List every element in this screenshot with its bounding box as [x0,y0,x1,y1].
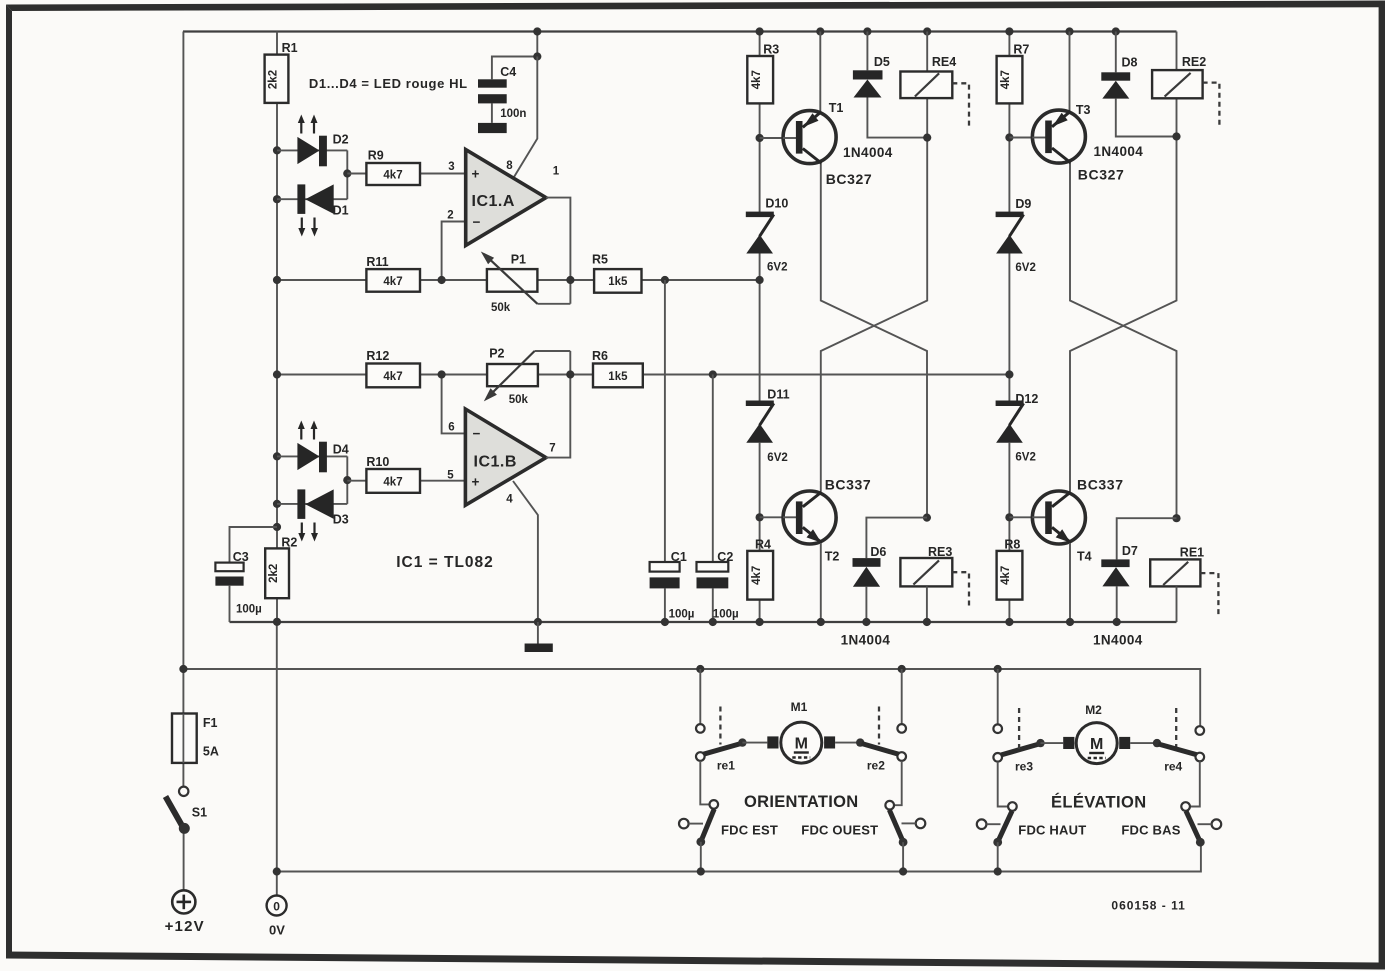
svg-text:6V2: 6V2 [1015,262,1035,274]
node R10 tap [343,476,351,484]
svg-text:D6: D6 [870,545,886,559]
svg-text:FDC BAS: FDC BAS [1121,823,1180,838]
svg-text:1k5: 1k5 [608,371,628,383]
relay contact re2 [897,724,906,733]
node D3 cathode [273,500,281,508]
node re2 motor node [856,738,864,746]
node re2 supply tap [898,665,906,673]
wire P1 wiper link [537,303,570,305]
wire C1 leads [664,280,666,622]
wire comparator B output net (y=374.5) [277,374,1009,376]
svg-text:ORIENTATION: ORIENTATION [744,793,859,811]
wire to op-amp pin 5 [347,480,465,482]
wire RE3 bottom lead [926,586,928,622]
LED D2 [297,137,319,164]
svg-text:BC337: BC337 [1077,477,1124,493]
wire D6 bottom lead [865,587,867,622]
op-amp U1A IC1.A [466,150,546,246]
wire pin 6 branch [442,375,466,434]
svg-text:5A: 5A [203,745,219,759]
capacitor C1 [650,562,680,572]
svg-text:T1: T1 [829,101,844,115]
svg-text:5: 5 [447,470,454,482]
zener D10 [746,212,774,218]
resistor R12 [366,364,420,388]
node D6 ground [862,618,870,626]
svg-text:T3: T3 [1076,103,1091,117]
svg-text:4k7: 4k7 [383,276,402,288]
svg-text:0V: 0V [269,923,285,938]
node D7/RE1 junction [1172,514,1180,522]
resistor R3 [747,56,773,103]
svg-text:2: 2 [447,210,453,222]
svg-text:BC327: BC327 [1078,167,1125,183]
wire RE4 contact link (dashed) [952,83,969,126]
zener D9 [996,212,1024,218]
svg-text:1N4004: 1N4004 [1093,633,1143,648]
svg-text:ÉLÉVATION: ÉLÉVATION [1051,793,1147,812]
node R9 tap [343,169,351,177]
svg-text:060158 - 11: 060158 - 11 [1111,899,1185,913]
svg-text:R7: R7 [1013,43,1029,57]
wire 0V bottom rail of amplifier section [230,621,1177,623]
node C4/pin8 branch [533,27,541,35]
svg-text:C4: C4 [500,65,516,79]
wire D3 row [277,503,347,505]
relay coil RE2 [1152,70,1203,98]
wire FDC HAUT to 0V rail [997,842,999,871]
svg-text:1N4004: 1N4004 [843,145,893,160]
resistor R6 [593,364,643,388]
svg-text:+12V: +12V [165,918,205,935]
node C1 branch [661,276,669,284]
wire re2 to FDC OUEST [894,761,902,805]
wire D1 row [277,198,347,200]
wire relay-contact supply rail [183,669,1200,727]
wire D5 bottom to RE4 junction [867,98,927,138]
node R11 input [273,276,281,284]
wire pin 2 branch [442,222,466,281]
svg-text:100µ: 100µ [236,604,262,616]
svg-text:100µ: 100µ [669,609,695,621]
wire RE3 contact link (dashed) [952,572,969,608]
svg-text:6V2: 6V2 [767,262,787,274]
relay coil RE4 [900,72,952,99]
node D1 cathode [273,195,281,203]
transistor Q2 T2 BC337 [783,491,836,544]
wire motor-return bottom rail [277,846,1201,872]
node FDC HAUT rail joint [994,867,1002,875]
svg-text:FDC OUEST: FDC OUEST [801,823,878,838]
svg-text:M: M [1090,736,1103,753]
svg-text:−: − [473,215,481,230]
node FDC HAUT common [993,838,1002,847]
node T2 base junction [756,513,764,521]
wire T4 collector cross from RE2 side [1070,137,1177,492]
node D8 rail tap [1112,27,1120,35]
wire lower sensor right link [346,456,348,504]
svg-text:D9: D9 [1015,197,1031,211]
zener D11 [746,401,774,407]
node C2 ground [709,618,717,626]
diode D5 1N4004 [853,70,883,79]
wire T2 base [760,516,797,518]
node re4 motor node [1153,739,1161,747]
svg-text:re4: re4 [1164,760,1182,774]
motor M1 [781,722,822,763]
svg-text:re3: re3 [1015,760,1033,774]
wire sensor pair right link [346,150,348,199]
wire FDC EST to 0V rail [700,842,702,872]
node FDC OUEST rail joint [899,867,907,875]
svg-text:D7: D7 [1122,544,1138,558]
switch FDC OUEST [885,801,894,810]
svg-text:R8: R8 [1004,538,1020,552]
svg-text:D10: D10 [765,197,788,211]
node pin2/P1 junction [438,276,446,284]
wire RE4 coil leads [926,32,928,138]
svg-text:6: 6 [448,422,454,434]
node 0V rail branch [273,867,281,875]
svg-text:M2: M2 [1085,703,1102,717]
resistor R8 [997,551,1023,600]
wire re3 feed [997,669,999,725]
svg-text:8: 8 [506,160,513,172]
ground [537,622,539,644]
wire M2 left lead [1041,742,1064,744]
node C1 ground [661,618,669,626]
svg-text:D11: D11 [767,388,789,402]
resistor R10 [366,469,420,493]
wire M1 right lead [835,742,860,744]
wire D6 top link [866,518,927,559]
node supply rail branch [179,665,187,673]
node D5/RE4 junction [923,134,931,142]
capacitor C2 [697,562,729,572]
svg-text:R3: R3 [763,43,779,57]
capacitor C4 bracket [492,32,537,123]
svg-text:D12: D12 [1015,392,1038,406]
svg-text:R2: R2 [281,536,297,550]
resistor R9 [366,163,420,185]
node FDC EST rail joint [697,867,705,875]
svg-text:IC1 = TL082: IC1 = TL082 [396,554,494,571]
node R8 ground [1005,618,1013,626]
node D4 anode [273,452,281,460]
svg-text:R5: R5 [592,253,608,267]
svg-text:D3: D3 [333,513,349,527]
svg-text:RE2: RE2 [1182,55,1206,69]
svg-text:re2: re2 [867,759,885,773]
diode D6 1N4004 [853,558,881,567]
svg-text:6V2: 6V2 [1015,452,1035,464]
wire op-amp pin 8 supply [514,57,537,178]
switch FDC HAUT [1008,802,1017,811]
svg-text:R6: R6 [592,349,608,363]
svg-text:1N4004: 1N4004 [841,633,891,648]
node re1 supply tap [696,665,704,673]
wire D4 row [277,455,347,457]
node D6/RE3 junction [923,514,931,522]
wire sensor chain vertical [276,32,278,622]
node R7 top [1005,27,1013,35]
wire T4 emitter [1069,543,1071,622]
svg-text:P2: P2 [489,347,504,361]
svg-text:RE4: RE4 [932,55,956,69]
wire re1 to FDC EST [700,761,709,805]
svg-text:4k7: 4k7 [751,70,763,89]
wire D8 bottom to RE2 junction [1116,99,1177,137]
wire T2 collector cross from RE4 side [821,138,927,492]
node D7 ground [1113,618,1121,626]
resistor R5 [594,269,641,293]
node FDC BAS common [1196,838,1205,847]
svg-text:4k7: 4k7 [1000,566,1012,585]
node R12 input [273,370,281,378]
node T1 emitter rail tap [816,27,824,35]
diode D7 1N4004 [1101,559,1129,567]
wire D2 row [277,149,347,151]
wire T1 emitter [819,32,821,112]
svg-text:2k2: 2k2 [268,564,280,583]
svg-text:D1...D4 = LED rouge HL: D1...D4 = LED rouge HL [309,76,468,91]
svg-text:D8: D8 [1122,56,1138,70]
terminal 0V [267,896,287,916]
svg-text:R1: R1 [282,41,298,55]
node pin6/P2 junction [438,370,446,378]
zener D12 [996,401,1024,407]
svg-text:4k7: 4k7 [383,476,402,488]
mechanical link re4 (dashed) [1175,708,1177,750]
wire RE2 coil leads [1176,32,1178,137]
wire R3/zener column [759,32,761,623]
wire C3 top bracket [230,527,278,563]
wire M2 right lead [1130,742,1157,744]
wire M1 left lead [742,742,767,744]
node re3 motor node [1036,739,1044,747]
wire T3 base [1009,137,1045,139]
wire RE2 contact link (dashed) [1203,83,1220,126]
wire T3 emitter [1069,32,1071,112]
svg-text:BC327: BC327 [826,171,873,187]
svg-text:D2: D2 [333,133,349,147]
node D8/RE2 junction [1172,132,1180,140]
node T4 emitter ground [1066,618,1074,626]
wire T1 collector cross to RE3 side [821,163,927,517]
relay coil RE3 [900,558,952,586]
svg-text:4k7: 4k7 [1000,70,1012,89]
node output/feedback A [566,276,574,284]
node R3 top [756,27,764,35]
LED D4 [297,443,319,470]
relay coil RE1 [1150,559,1200,586]
node R6/zener junction [1005,370,1013,378]
node pin 4 ground junction [534,618,542,626]
node D2 anode [273,146,281,154]
svg-text:4k7: 4k7 [383,371,402,383]
wire +12V top supply rail [183,30,1177,32]
svg-text:D4: D4 [333,443,349,457]
svg-text:RE3: RE3 [928,545,952,559]
transistor Q3 T3 BC327 [1032,110,1085,163]
wire D7 top link [1117,518,1177,559]
wire D8 top lead [1115,32,1117,73]
svg-text:−: − [473,426,481,441]
svg-text:1k5: 1k5 [608,276,628,288]
svg-text:RE1: RE1 [1180,546,1204,560]
node re1 motor node [738,738,746,746]
wire +12V left vertical (corner to fuse) [182,32,184,787]
transistor Q1 T1 BC327 [783,111,836,164]
svg-text:T4: T4 [1077,550,1092,564]
wire op-amp B output [546,351,570,458]
wire comparator A output net (y=280) [277,279,760,281]
switch S1 [179,787,188,796]
capacitor C3 [215,563,243,572]
capacitor C4 [478,79,507,87]
svg-text:C1: C1 [671,550,687,564]
resistor R11 [366,269,420,292]
switch FDC EST [710,800,719,809]
wire op-amp pin 4 to ground [513,481,538,622]
svg-text:C3: C3 [233,550,249,564]
transistor Q4 T4 BC337 [1032,491,1085,544]
wire op-amp A output [546,198,570,304]
svg-text:3: 3 [448,161,454,173]
svg-text:M: M [795,736,808,753]
terminal +12V [172,890,195,913]
diode D8 1N4004 [1101,72,1130,80]
wire re4 to FDC BAS [1190,761,1200,806]
svg-text:0: 0 [273,900,280,914]
wire to op-amp pin 3 [347,173,465,175]
svg-text:D5: D5 [874,55,890,69]
svg-text:R11: R11 [366,255,388,269]
potentiometer P1 [487,269,538,292]
motor M2 [1076,723,1117,764]
relay contact re3 [993,724,1002,733]
node T3 base junction [1005,133,1013,141]
svg-text:100µ: 100µ [713,609,739,621]
node RE3 ground [923,618,931,626]
wire FDC OUEST to 0V rail [902,842,904,871]
wire T1 base [760,137,797,139]
wire T4 base [1009,516,1045,518]
fuse F1 5A [172,714,197,763]
resistor R1 [265,55,289,103]
svg-text:re1: re1 [717,759,735,773]
op-amp U1B IC1.B [465,409,546,505]
switch FDC BAS [1181,802,1190,811]
svg-text:4k7: 4k7 [383,170,402,182]
wire D5 top lead [866,32,868,71]
wire T2 emitter [820,543,822,622]
wire 0V terminal riser [276,622,278,896]
node T2 emitter ground [817,618,825,626]
svg-text:IC1.A: IC1.A [472,193,515,210]
node T3 emitter rail tap [1065,27,1073,35]
wire T3 collector cross to RE1 side [1070,163,1177,518]
svg-text:4: 4 [506,494,513,506]
node R2/C3/0V junction [273,618,281,626]
wire S1 to +12V terminal [183,833,185,890]
svg-text:FDC HAUT: FDC HAUT [1018,823,1086,838]
svg-text:T2: T2 [825,550,840,564]
svg-text:IC1.B: IC1.B [474,453,517,470]
node output/feedback B [566,370,574,378]
wire RE1 contact link (dashed) [1200,573,1218,615]
svg-text:C2: C2 [717,550,733,564]
mechanical link re1 (dashed) [719,707,721,745]
node C3 branch [273,523,281,531]
resistor R4 [747,551,773,600]
svg-text:R9: R9 [368,149,384,163]
node D5 rail tap [863,27,871,35]
svg-text:50k: 50k [509,394,529,406]
svg-text:S1: S1 [192,806,207,820]
potentiometer P2 [487,364,538,386]
svg-text:P1: P1 [511,253,526,267]
node T1 base junction [756,134,764,142]
wire re3 to FDC HAUT [998,762,1009,807]
mechanical link re2 (dashed) [878,707,880,745]
svg-text:+: + [472,475,480,490]
svg-text:2k2: 2k2 [268,70,280,89]
svg-text:FDC EST: FDC EST [721,823,778,838]
wire re1 feed [699,669,701,724]
node R5/zener junction [756,276,764,284]
wire C2 leads [712,375,714,623]
wire D7 bottom lead [1116,586,1118,622]
node FDC OUEST common [899,838,908,847]
LED D3 [297,489,305,519]
node re3 supply tap [994,665,1002,673]
node T4 base junction [1005,513,1013,521]
wire RE1 bottom lead [1176,586,1178,622]
svg-text:F1: F1 [203,716,218,730]
relay contact re1 [696,724,705,733]
mechanical link re3 (dashed) [1018,708,1020,750]
svg-text:R4: R4 [755,538,771,552]
resistor R2 [265,548,289,598]
svg-text:R12: R12 [366,349,389,363]
svg-text:R10: R10 [366,455,389,469]
LED D1 [297,184,305,214]
svg-text:1N4004: 1N4004 [1094,144,1144,159]
svg-text:100n: 100n [500,108,526,120]
node C2 branch [709,370,717,378]
svg-text:+: + [472,167,480,182]
svg-text:6V2: 6V2 [767,452,787,464]
node R4 ground [756,618,764,626]
svg-text:BC337: BC337 [825,477,872,493]
wire P2 wiper link [535,350,571,352]
svg-text:7: 7 [549,443,555,455]
svg-text:D1: D1 [333,204,349,218]
wire R7/zener column [1008,32,1010,623]
svg-text:1: 1 [553,166,560,178]
svg-text:4k7: 4k7 [751,566,763,585]
node RE4 rail tap [923,27,931,35]
wire re2 feed [901,669,903,724]
svg-text:M1: M1 [791,700,808,714]
node FDC EST common [696,837,705,846]
resistor R7 [997,56,1023,103]
relay contact re4 [1196,726,1205,735]
svg-text:50k: 50k [491,302,511,314]
